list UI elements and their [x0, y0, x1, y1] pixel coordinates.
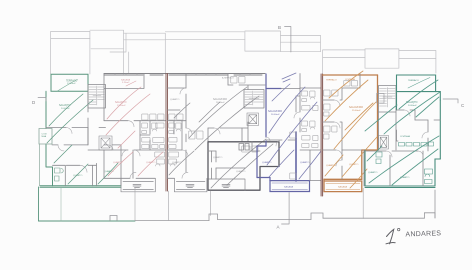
unit6 interior walls	[364, 110, 440, 186]
elevator C	[379, 136, 389, 150]
svg-text:SALA ESTAR: SALA ESTAR	[349, 106, 363, 109]
terrace inner line	[60, 187, 62, 221]
svg-text:QUARTO: QUARTO	[300, 161, 310, 164]
main top wall gray units 2-4	[104, 74, 265, 76]
unit6 laundry fixtures	[376, 152, 382, 164]
unit1 bathroom fixtures	[55, 168, 64, 181]
top wall window ticks	[115, 74, 250, 76]
svg-text:26.00m2: 26.00m2	[271, 114, 280, 116]
section marker A	[282, 193, 290, 225]
unit4 door arcs	[266, 112, 300, 146]
unit4 balcony railing	[272, 183, 308, 190]
svg-text:ANDARES: ANDARES	[405, 230, 441, 238]
svg-text:QUARTO: QUARTO	[368, 171, 378, 174]
unit2 sweep strokes pink	[106, 87, 163, 176]
unit2 interior walls	[104, 121, 166, 179]
unit2 balcony recess	[104, 74, 144, 121]
svg-text:SACADA: SACADA	[284, 186, 294, 189]
unit1 left protruding room	[39, 129, 52, 145]
unit3 bath fixtures	[169, 77, 258, 167]
svg-text:QUARTO: QUARTO	[236, 170, 246, 173]
unit1 outer walls green	[40, 91, 121, 187]
unit5 orange outline	[323, 75, 378, 192]
svg-text:SACADA: SACADA	[338, 186, 348, 189]
svg-text:COZI: COZI	[42, 134, 48, 136]
elevator A	[99, 136, 112, 150]
unit2 door arcs	[122, 121, 140, 156]
unit1 sweep strokes	[47, 94, 118, 184]
unit1 terrace stroke	[58, 80, 78, 92]
maroon party wall unit4-5	[321, 74, 323, 196]
stair core A treads	[89, 86, 105, 105]
unit3 sweep strokes gray	[169, 87, 273, 188]
unit6 teal outline	[365, 92, 440, 188]
svg-text:3.20m2: 3.20m2	[122, 82, 130, 84]
unit1 left outer wall lower	[39, 144, 41, 186]
terrace divider walls	[135, 187, 363, 220]
unit5 balcony railing	[326, 184, 360, 190]
unit2 balcony tick	[126, 81, 136, 86]
unit1 interior walls	[46, 91, 121, 186]
unit6 sweep strokes teal	[365, 80, 440, 185]
svg-text:QUARTO: QUARTO	[213, 156, 223, 159]
svg-text:12.00m2: 12.00m2	[67, 83, 76, 85]
unit2 balcony door arc	[130, 172, 136, 178]
svg-text:25.00m2: 25.00m2	[352, 110, 361, 112]
svg-text:28.00m2: 28.00m2	[216, 102, 225, 104]
roof outline upper floor left block	[51, 30, 436, 74]
svg-text:NHA: NHA	[42, 135, 47, 138]
stair core B treads	[245, 91, 263, 105]
unit6 teal terrace box	[397, 75, 436, 92]
unit2 bath fixtures	[142, 114, 165, 166]
svg-text:SALA ESTAR: SALA ESTAR	[268, 110, 282, 113]
unit3 door arcs	[180, 88, 220, 156]
svg-text:24.00m2: 24.00m2	[408, 105, 417, 107]
unit3 interior walls	[167, 74, 265, 179]
unit1 door arcs	[58, 128, 113, 173]
unit3 balcony	[174, 178, 207, 192]
stair core A walls	[88, 85, 106, 109]
unit5 interior walls	[323, 74, 362, 180]
unit3 balcony door arc	[182, 172, 188, 178]
unit3 highlighted dark rectangle	[208, 142, 279, 190]
unit4 interior walls	[266, 74, 321, 181]
unit1 terrace box green	[51, 74, 88, 91]
handwritten 1 degree	[386, 228, 400, 243]
svg-text:QUARTO: QUARTO	[170, 98, 180, 101]
unit6 kitchen counter row	[399, 142, 434, 146]
svg-text:COZINHA: COZINHA	[400, 135, 410, 138]
ground line	[110, 190, 435, 221]
section marker C	[443, 99, 458, 103]
terrace outline bottom left	[39, 187, 136, 221]
stair core B walls	[244, 90, 264, 109]
svg-text:TERRACO: TERRACO	[326, 79, 337, 82]
svg-text:SALA ESTAR: SALA ESTAR	[213, 98, 227, 101]
unit4 thick wall	[295, 132, 297, 181]
unit2 balcony	[121, 178, 155, 192]
svg-text:A.SERVICO: A.SERVICO	[222, 77, 234, 80]
svg-text:QUARTO: QUARTO	[262, 161, 272, 164]
elevator B	[247, 113, 259, 126]
stair core C treads	[380, 88, 396, 108]
unit6 door arcs	[386, 110, 428, 157]
svg-text:TERRACO: TERRACO	[408, 79, 419, 82]
unit4 blue outline	[257, 74, 310, 192]
unit5 duct niche on right border	[377, 93, 384, 103]
unit5 kitchen fixtures	[324, 81, 358, 140]
unit4 sweep strokes blue	[267, 73, 321, 179]
svg-text:A: A	[277, 225, 280, 230]
svg-text:D: D	[32, 100, 36, 105]
unit4 bath fixtures	[290, 91, 318, 179]
unit6 bath fixtures right	[425, 169, 433, 184]
unit3 highlight interior	[208, 142, 260, 179]
unit5 door arcs	[334, 100, 342, 166]
unit5 sweep strokes orange	[325, 71, 377, 188]
stair core C walls	[379, 86, 397, 151]
section marker B	[285, 27, 291, 53]
svg-text:B: B	[278, 25, 281, 30]
svg-text:C: C	[461, 103, 465, 108]
maroon party wall unit2-3	[166, 74, 168, 192]
